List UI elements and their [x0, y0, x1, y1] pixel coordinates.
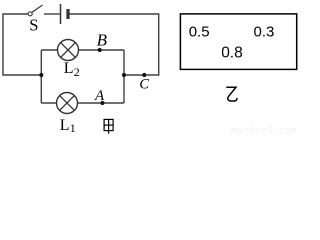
svg-text:0.5: 0.5 — [189, 23, 210, 40]
svg-text:L: L — [64, 60, 74, 77]
svg-text:1: 1 — [70, 121, 76, 134]
svg-text:2: 2 — [74, 65, 80, 79]
svg-text:A: A — [94, 88, 105, 104]
svg-text:manfen5.com: manfen5.com — [231, 126, 297, 134]
svg-text:0.8: 0.8 — [221, 45, 243, 62]
svg-text:S: S — [29, 15, 38, 34]
svg-text:0.3: 0.3 — [254, 23, 275, 40]
svg-text:B: B — [97, 31, 108, 50]
svg-text:L: L — [60, 117, 70, 134]
svg-text:C: C — [139, 77, 149, 93]
